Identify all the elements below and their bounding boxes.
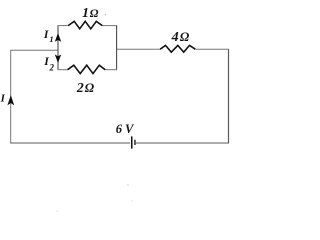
current arrow I1 on box left vertical (pointing up)	[55, 33, 61, 42]
wire right vertical rail	[228, 49, 230, 143]
wire parallel-box right vertical	[116, 26, 118, 70]
svg-text:1: 1	[49, 34, 53, 44]
svg-text:2Ω: 2Ω	[76, 81, 95, 96]
wire left vertical rail	[10, 50, 12, 143]
svg-text:I: I	[0, 93, 6, 105]
wire parallel-box bottom branch right stub	[105, 69, 117, 71]
resistor R1 1-ohm zigzag	[68, 21, 102, 29]
faint scan dot bottom area right	[131, 200, 133, 202]
wire left lead from left rail to parallel junction	[10, 49, 58, 51]
current arrow I on left rail (pointing up)	[7, 95, 14, 105]
svg-text:I: I	[43, 55, 49, 68]
svg-text:2: 2	[49, 63, 55, 73]
wire bottom left segment to battery	[10, 142, 130, 144]
wire parallel-box top branch right stub	[102, 25, 117, 27]
svg-text:6 V: 6 V	[116, 122, 135, 136]
battery B1 short plate	[134, 140, 135, 145]
svg-text:1Ω: 1Ω	[82, 6, 99, 21]
faint scan dot lower middle	[127, 184, 128, 185]
wire parallel-box top branch left stub	[58, 25, 69, 27]
current arrow I2 on box left vertical (pointing down)	[55, 55, 61, 64]
wire bottom right segment from battery	[136, 142, 229, 144]
resistor R3 4-ohm zigzag	[160, 45, 195, 52]
resistor R2 2-ohm zigzag	[68, 65, 106, 73]
wire parallel-box bottom branch left stub	[58, 69, 69, 71]
svg-text:4Ω: 4Ω	[171, 30, 190, 45]
wire parallel-box left vertical	[57, 26, 59, 70]
wire top-right lead right of 4-ohm resistor	[195, 48, 229, 50]
wire top-right lead left of 4-ohm resistor	[117, 48, 161, 50]
faint scan dot bottom area left	[56, 210, 58, 212]
battery B1 long plate	[131, 136, 133, 148]
faint scan dot near 1-ohm label	[105, 14, 106, 15]
svg-text:I: I	[43, 28, 49, 41]
